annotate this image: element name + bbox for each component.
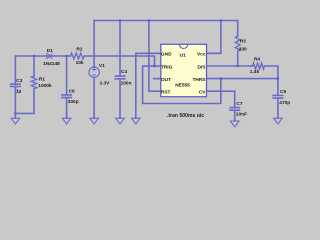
svg-text:NE555: NE555: [175, 83, 190, 89]
svg-text:3.3V: 3.3V: [100, 80, 111, 86]
svg-text:1N4148: 1N4148: [43, 61, 60, 67]
svg-text:.tran 500ms uic: .tran 500ms uic: [167, 113, 204, 119]
svg-text:R4: R4: [254, 56, 260, 62]
svg-text:330: 330: [239, 46, 247, 52]
svg-text:100n: 100n: [121, 81, 132, 87]
svg-text:THRS: THRS: [192, 77, 206, 83]
svg-text:1.4k: 1.4k: [250, 69, 260, 75]
svg-text:C4: C4: [121, 69, 127, 75]
svg-text:C5: C5: [280, 89, 286, 95]
svg-text:470p: 470p: [279, 100, 290, 106]
svg-text:1µ: 1µ: [16, 89, 22, 95]
svg-text:1000k: 1000k: [38, 83, 52, 89]
svg-text:330p: 330p: [68, 99, 79, 105]
svg-text:OUT: OUT: [161, 77, 171, 83]
svg-text:10nF: 10nF: [236, 111, 247, 117]
svg-text:R1: R1: [39, 77, 45, 83]
svg-text:C3: C3: [16, 78, 22, 84]
svg-text:CV: CV: [199, 90, 206, 96]
svg-text:DIS: DIS: [198, 65, 207, 71]
svg-text:TRIG: TRIG: [161, 65, 173, 71]
svg-text:10k: 10k: [76, 60, 84, 66]
svg-text:D1: D1: [47, 48, 53, 54]
svg-text:V1: V1: [99, 63, 105, 69]
svg-text:GND: GND: [161, 52, 172, 58]
svg-text:RST: RST: [161, 90, 171, 96]
svg-text:U1: U1: [180, 53, 186, 59]
svg-text:R3: R3: [240, 38, 246, 44]
svg-text:R2: R2: [76, 46, 82, 52]
svg-text:C7: C7: [236, 101, 242, 107]
svg-text:Vcc: Vcc: [197, 52, 206, 58]
svg-text:C6: C6: [69, 88, 75, 94]
